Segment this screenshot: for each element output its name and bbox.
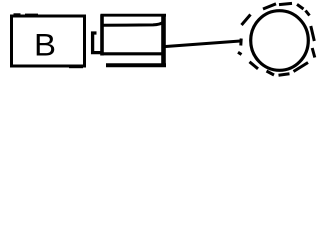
wire — [164, 41, 242, 47]
battery box top wobble — [14, 13, 39, 15]
halo dash lower-right — [294, 63, 309, 72]
svg-text:B: B — [34, 27, 56, 63]
halo dash right lower — [312, 48, 315, 58]
halo dash top-left — [263, 4, 276, 9]
component right wall — [161, 14, 166, 67]
bell circle — [251, 11, 309, 71]
halo dash top-right — [297, 4, 304, 9]
halo dash left at wire end — [239, 39, 242, 46]
battery box bottom wobble — [69, 66, 83, 68]
component outer top — [101, 14, 167, 17]
component left wall — [100, 15, 104, 56]
component tab terminal — [93, 33, 101, 53]
component inner top — [102, 23, 163, 26]
halo dash left small — [238, 52, 242, 54]
component inner bottom — [102, 52, 163, 55]
halo dash upper-left long — [242, 15, 251, 26]
halo dash bottom-left — [267, 71, 275, 75]
battery box B — [12, 16, 85, 66]
halo dash bottom — [279, 74, 290, 75]
halo dash top — [279, 3, 292, 4]
dashed halo — [238, 3, 315, 75]
halo dash lower-left — [250, 62, 259, 69]
halo dash right upper long — [311, 26, 315, 41]
component outer bottom — [106, 63, 166, 67]
halo dash upper-right small — [306, 11, 310, 16]
